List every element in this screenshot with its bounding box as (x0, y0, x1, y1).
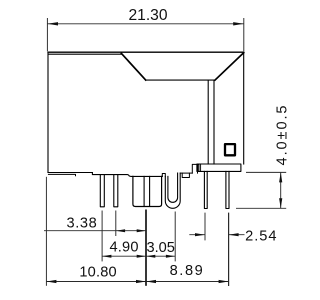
wire hook inner (168, 173, 178, 202)
arrow 3.05 right (166, 255, 175, 258)
wire hook outer (165, 173, 180, 208)
hook tab (162, 174, 165, 177)
ext line hook center (174, 212, 176, 262)
arrow bottom far-right (219, 280, 229, 283)
arrow 3.05 left (146, 255, 155, 258)
dim 4.0 extension bottom (236, 207, 286, 209)
arrow 4.0 down (279, 198, 282, 208)
dimension texts (66, 7, 290, 280)
top recess horizontal (146, 79, 215, 81)
arrowheads (46, 22, 282, 283)
ext line leg2 center (115, 211, 117, 237)
pin 1 (204, 171, 207, 208)
foot tab under step (182, 173, 189, 177)
housing bottom edge left (48, 172, 92, 174)
housing top edge (48, 51, 244, 53)
arrow 21.30 right (233, 22, 244, 25)
arrow 2.54 left(pointing right) (195, 233, 205, 236)
rear body front wall line 1 (207, 80, 209, 164)
ext line post center (thick) (145, 210, 147, 286)
housing top shield seam line (48, 53, 121, 55)
board lock box (192, 164, 198, 173)
svg-text:4.90: 4.90 (109, 239, 138, 255)
arrow 4.0 up (279, 172, 282, 182)
svg-text:3.05: 3.05 (146, 240, 174, 256)
dim 4.0 extension top (246, 171, 286, 173)
dim 2.54 arrow leaders (189, 234, 244, 236)
dim 21.30 line (47, 23, 243, 25)
top chamfer diagonal right (215, 53, 244, 80)
arrow 3.38 left (116, 229, 125, 232)
arrow 21.30 left (47, 22, 58, 25)
bottom flange (197, 164, 241, 171)
arrow bottom mid-left (146, 280, 156, 283)
ext line pin1 center (204, 213, 206, 241)
center post (133, 176, 162, 206)
arrow 4.90 left (102, 255, 111, 258)
top chamfer diagonal left (121, 53, 145, 80)
step line to board lock (180, 172, 192, 174)
dim 21.30 extension lines (47, 18, 243, 51)
pin 2 (226, 171, 229, 208)
ext line pin2 center (228, 213, 230, 286)
ext line housing left (45, 177, 47, 286)
flange inner vertical lines (199, 164, 201, 171)
ext line leg1 center (101, 211, 103, 262)
leg 2 (114, 175, 118, 207)
housing left edge (47, 53, 49, 172)
svg-text:10.80: 10.80 (79, 265, 117, 281)
svg-text:4.0±0.5: 4.0±0.5 (275, 104, 291, 166)
svg-text:2.54: 2.54 (245, 229, 277, 245)
dim 4.90 line (102, 255, 146, 257)
dim 3.05 line (146, 255, 175, 257)
dim 4.0 line (280, 172, 282, 208)
arrow 3.38 right (137, 229, 146, 232)
bottom shield seam lip (48, 174, 75, 175)
center post inner lines (144, 176, 150, 206)
housing right edge (243, 53, 245, 165)
arrow 4.90 right (137, 255, 146, 258)
svg-text:21.30: 21.30 (128, 7, 167, 24)
dim 3.38 line (44, 230, 146, 232)
bottom step edge (92, 173, 162, 177)
dim bottom row line (46, 281, 228, 283)
svg-text:8.89: 8.89 (170, 263, 205, 279)
arrow 2.54 right(pointing left) (229, 233, 239, 236)
svg-text:3.38: 3.38 (66, 215, 97, 231)
arrow bottom mid-right (136, 280, 146, 283)
leg 1 (100, 175, 104, 207)
rear body front wall line 2 (213, 80, 215, 164)
arrow bottom far-left (46, 280, 56, 283)
latch window (225, 144, 235, 155)
